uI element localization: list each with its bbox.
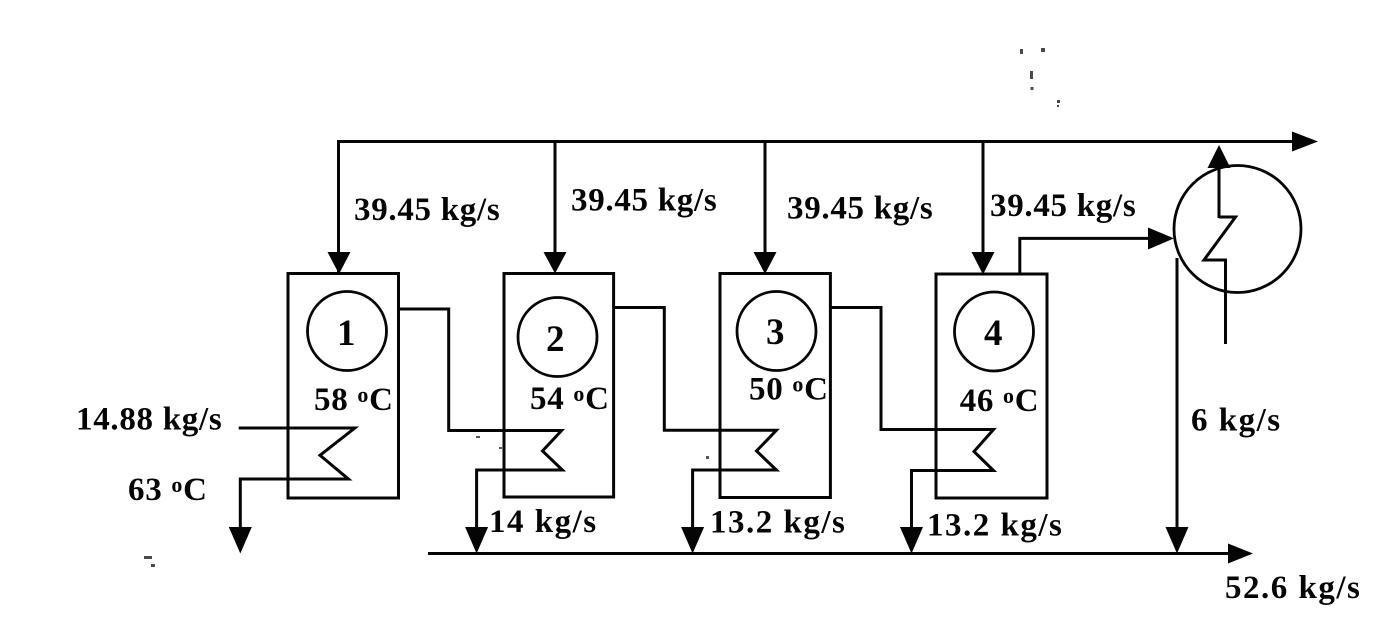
top manifold outlet arrowhead: [1292, 132, 1318, 152]
svg-text:13.2 kg/s: 13.2 kg/s: [710, 505, 846, 541]
condensate arrowhead unit 1: [229, 527, 252, 554]
svg-text:14.88 kg/s: 14.88 kg/s: [76, 402, 222, 438]
condenser inlet arrowhead: [1148, 228, 1174, 250]
scan speck group bottom left: [144, 556, 155, 567]
interconnect wire unit 3 to unit 4 and steam coil unit 4: [830, 308, 993, 529]
svg-text:4: 4: [984, 313, 1003, 354]
condensate arrowhead unit 3: [681, 527, 704, 554]
condenser coil zigzag: [1204, 217, 1236, 344]
interconnect wire unit 1 to unit 2 and steam coil unit 2: [399, 309, 563, 528]
feed wire into unit 1: [328, 252, 351, 274]
svg-text:58 oC: 58 oC: [314, 382, 394, 418]
svg-text:1: 1: [337, 313, 356, 354]
svg-text:46 oC: 46 oC: [960, 383, 1040, 419]
stage circle 3: [737, 292, 816, 371]
product line arrowhead: [1228, 544, 1253, 564]
stage circle 4: [955, 292, 1034, 371]
svg-text:52.6 kg/s: 52.6 kg/s: [1225, 570, 1361, 606]
condenser vapour up wire: [1218, 166, 1221, 218]
top manifold wire: [339, 142, 1295, 273]
interconnect wire unit 2 to unit 3 and steam coil unit 3: [614, 308, 777, 529]
bottom product line: [428, 552, 1230, 555]
svg-text:54 oC: 54 oC: [530, 381, 610, 417]
stage circle 1: [308, 292, 387, 371]
svg-text:39.45 kg/s: 39.45 kg/s: [354, 192, 500, 228]
arrowhead 6 kg/s into product line: [1166, 527, 1189, 554]
svg-text:63 oC: 63 oC: [128, 472, 208, 508]
feed wire into unit 2: [554, 142, 557, 254]
condensate arrowhead unit 4: [900, 527, 923, 554]
feed wire into unit 3: [764, 142, 767, 254]
stage circle 2: [518, 298, 597, 377]
svg-text:3: 3: [766, 312, 785, 353]
evaporator unit 1 box: [288, 274, 399, 499]
svg-text:39.45 kg/s: 39.45 kg/s: [571, 183, 717, 219]
evaporator unit 4 box: [936, 274, 1047, 498]
condenser circle: [1174, 166, 1301, 293]
evaporator unit 3 box: [720, 274, 830, 498]
svg-text:6 kg/s: 6 kg/s: [1191, 403, 1282, 439]
scan speck group top right: [1020, 48, 1060, 107]
vapour wire unit 4 to condenser: [1020, 238, 1150, 273]
svg-text:2: 2: [546, 319, 565, 360]
scan speck group mid: [476, 436, 709, 459]
evaporator unit 2 box: [504, 274, 614, 498]
svg-text:13.2 kg/s: 13.2 kg/s: [927, 508, 1063, 544]
feed wire into unit 4: [982, 142, 985, 254]
svg-text:39.45 kg/s: 39.45 kg/s: [787, 191, 933, 227]
condenser up arrowhead: [1208, 145, 1231, 168]
steam coil unit 1 with inlet and condensate drop wire: [239, 428, 355, 528]
condensate arrowhead unit 2: [465, 527, 488, 554]
svg-text:14 kg/s: 14 kg/s: [489, 504, 598, 540]
svg-text:39.45 kg/s: 39.45 kg/s: [990, 188, 1136, 224]
cooling water wire 6 kg/s: [1176, 258, 1179, 528]
svg-text:50 oC: 50 oC: [749, 372, 829, 408]
